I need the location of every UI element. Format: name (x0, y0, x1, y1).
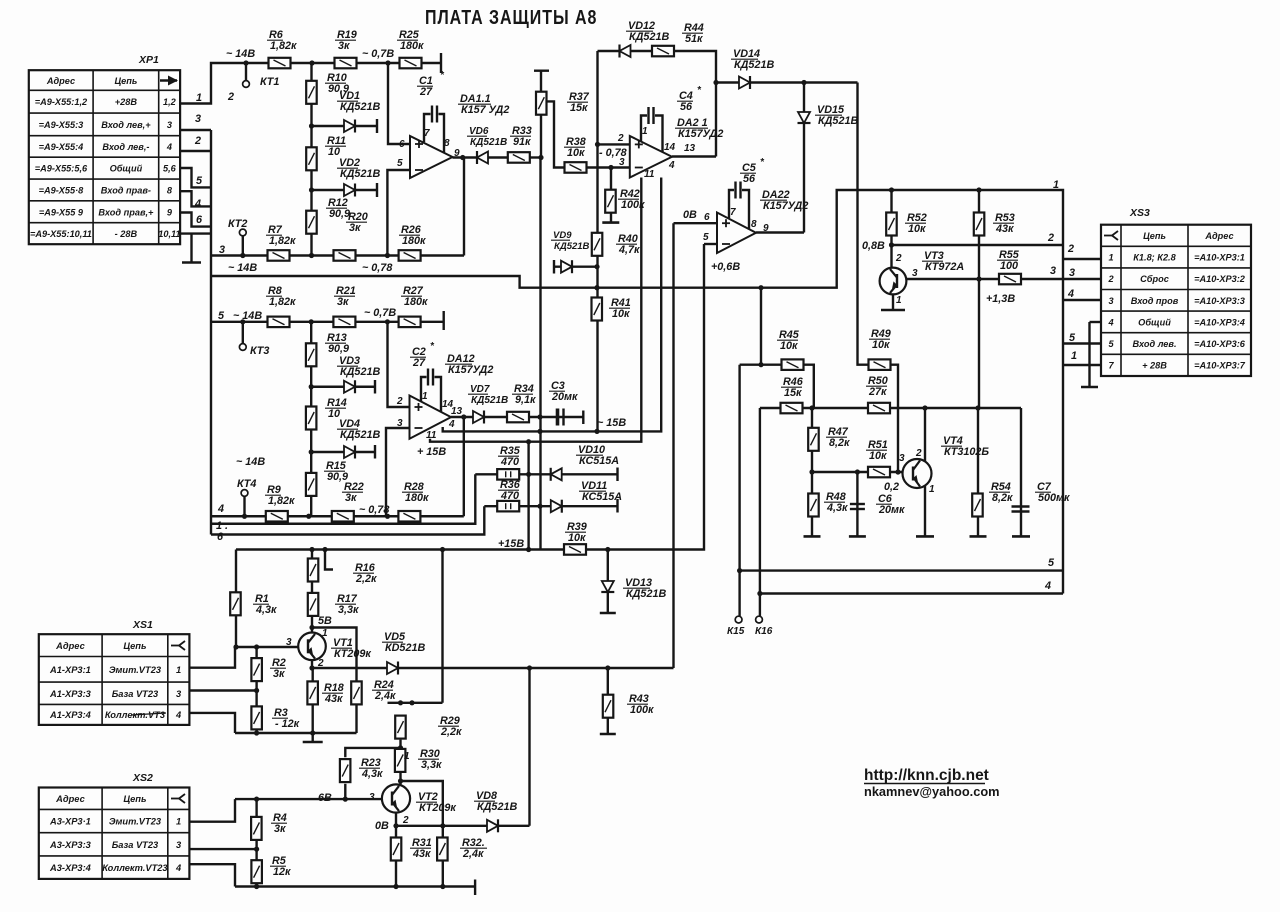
label R34 (512, 383, 536, 406)
wire VT2 emitter (395, 813, 397, 826)
label pin8 DA1.1 (444, 138, 450, 149)
junction node x594 pin4 (594, 429, 599, 434)
label R33 (510, 125, 532, 148)
wire C4 frame (641, 116, 647, 142)
wire C1 frame b (439, 114, 445, 153)
wire VD11 row (484, 505, 617, 507)
label 5 row (218, 310, 225, 322)
op-amp DA1.1 (410, 136, 453, 178)
ground XS3 (1081, 386, 1098, 389)
label R50 (866, 375, 888, 398)
resistor R1 (230, 592, 241, 615)
label R25 (397, 29, 424, 52)
svg-text:1: 1 (1071, 350, 1077, 362)
wire R43 chain (607, 668, 609, 734)
svg-text:3: 3 (369, 792, 375, 803)
label R8 (266, 285, 296, 308)
svg-text:3: 3 (1108, 296, 1113, 306)
wire R23 bot (344, 784, 346, 799)
svg-text:8: 8 (167, 185, 173, 195)
svg-text:2: 2 (402, 815, 409, 826)
wire row 1 bus (211, 474, 475, 523)
svg-text:КД521В: КД521В (340, 429, 380, 441)
junction node 0,7V row1 (385, 60, 390, 65)
svg-text:15к: 15к (570, 102, 588, 114)
svg-text:2: 2 (617, 133, 624, 144)
wire VD7 row (451, 416, 583, 418)
svg-text:10к: 10к (908, 223, 926, 235)
svg-text:4,3к: 4,3к (255, 604, 277, 616)
label pin13 DA2.1 (684, 143, 696, 154)
junction node R22-R28 (385, 514, 390, 519)
terminator R37 top (534, 69, 549, 71)
junction node R9-R22 (306, 514, 311, 519)
junction node R23-R30 (398, 745, 403, 750)
wire VT1 coll to R24 (312, 628, 357, 682)
svg-text:5: 5 (1069, 332, 1076, 344)
label VD7 (468, 384, 508, 406)
svg-text:КТ972А: КТ972А (925, 261, 964, 273)
wire XS2 row2 wire (189, 848, 256, 850)
label 3 xs3l (1050, 265, 1056, 277)
wire rail 2 (892, 244, 1064, 246)
junction node base VT4 (895, 469, 900, 474)
svg-text:КД521В: КД521В (340, 366, 380, 378)
svg-text:3,3к: 3,3к (338, 604, 359, 616)
junction node VT1 coll (309, 625, 314, 630)
svg-text:=А10-ХР3:6: =А10-ХР3:6 (1194, 339, 1246, 349)
svg-text:100: 100 (1000, 260, 1018, 272)
svg-text:470: 470 (500, 490, 519, 502)
label R44 (682, 22, 704, 45)
wire XS1 row3 wire (189, 713, 235, 733)
wire DA1.1 -in riser (387, 170, 410, 256)
junction node x540 pin4 (537, 429, 542, 434)
title (425, 6, 597, 28)
wire +15V rail (236, 244, 704, 550)
wire XS3 stub r7 (1063, 364, 1101, 366)
label C2 (410, 341, 435, 369)
capacitor C5 (736, 182, 741, 199)
svg-text:КТ209к: КТ209к (419, 802, 456, 814)
label VD9 (551, 230, 590, 252)
wire VD8 row (396, 825, 530, 827)
svg-text:Общий: Общий (110, 164, 143, 174)
junction rail dot R29 (440, 547, 445, 552)
wire DA1.2 -in riser (386, 428, 410, 516)
junction node VD14 in (713, 80, 718, 85)
junction DA1.1 out (460, 155, 465, 160)
wire link row1-rail (211, 190, 1063, 288)
wire R33 out (530, 156, 542, 158)
ground R48 (804, 535, 821, 538)
label pin7 DA2.2 (730, 207, 736, 218)
svg-text:5,6: 5,6 (163, 164, 177, 174)
svg-text:4,3к: 4,3к (361, 768, 383, 780)
diode VD13 (601, 581, 614, 592)
junction node R47-R51 (809, 469, 814, 474)
label R52 (905, 212, 927, 235)
resistor R33 (508, 152, 530, 163)
svg-text:2: 2 (915, 448, 922, 459)
wire XS3 stub r5 (1063, 342, 1101, 344)
label pin2 DA1.2 (396, 396, 403, 407)
svg-text:3к: 3к (338, 40, 350, 52)
svg-text:180к: 180к (402, 235, 426, 247)
resistor R8 (268, 317, 290, 328)
resistor R48 (808, 494, 819, 517)
label pin13 DA1.2 (451, 406, 463, 417)
ground VT3 (881, 309, 905, 312)
label pin3 DA1.2 (397, 418, 403, 429)
svg-text:3к: 3к (337, 296, 349, 308)
resistor R51 (868, 467, 890, 478)
junction node x597 rail (594, 285, 599, 290)
label 0V DA2.2 (683, 209, 697, 221)
svg-text:КТ1: КТ1 (260, 76, 279, 88)
label 2 xs3l (1047, 232, 1054, 244)
label R55 (997, 249, 1020, 272)
wire XS3 gnd leg (1088, 322, 1090, 387)
label VT2 (416, 791, 456, 814)
junction node R2-R3 (254, 688, 259, 693)
svg-text:А3-ХР3:4: А3-ХР3:4 (49, 863, 92, 873)
junction node R6-R19 (309, 60, 314, 65)
junction DA1.2 out (461, 414, 466, 419)
junction node x528 pin11 (526, 439, 531, 444)
junction rail dot tick (322, 547, 327, 552)
wire R48 chain (811, 472, 813, 536)
svg-text:VD9: VD9 (553, 230, 572, 241)
svg-text:КТ2: КТ2 (228, 218, 247, 230)
label 4 xs3r (1067, 288, 1074, 300)
resistor R49 (869, 359, 891, 370)
label R54 (989, 481, 1013, 504)
svg-text:100к: 100к (630, 704, 654, 716)
label KT4 (237, 478, 256, 490)
label +15V (498, 538, 524, 550)
wire x761 drop (760, 288, 762, 365)
label pin1 VT4 (929, 484, 935, 495)
svg-text:10к: 10к (780, 340, 798, 352)
svg-text:База VТ23: База VТ23 (112, 689, 159, 699)
label 1 xs3r (1071, 350, 1077, 362)
diode VD4 (344, 446, 355, 459)
wire VD4 wire (311, 451, 375, 453)
svg-text:3,3к: 3,3к (421, 759, 442, 771)
label VD5 (382, 631, 425, 654)
resistor R3 (251, 706, 262, 729)
junction node R4 top (254, 797, 259, 802)
svg-text:1: 1 (176, 665, 181, 675)
junction node gnd VT1 (310, 730, 315, 735)
op-amp DA2.1 (630, 136, 672, 178)
svg-text:4: 4 (668, 160, 675, 171)
label pin9 DA2.2 (763, 223, 769, 234)
wire XP1 pin 4 (180, 150, 211, 152)
transistor VT2 (382, 784, 410, 812)
svg-text:8,2к: 8,2к (992, 492, 1013, 504)
label pin3 VT1 (286, 637, 292, 648)
junction KT3 stem (240, 319, 245, 324)
label ~14V row1 (226, 48, 255, 60)
wire R16R17 chain (311, 550, 313, 633)
wire VT1 base row (236, 646, 298, 648)
svg-text:КД521В: КД521В (471, 395, 508, 406)
svg-text:К1.8; К2.8: К1.8; К2.8 (1133, 253, 1176, 263)
resistor R28 (398, 511, 420, 522)
XS3 header pin symbol (1104, 231, 1118, 240)
wire R29-R30 link (399, 740, 401, 748)
junction node R7-R20 (309, 253, 314, 258)
capacitor C4 (649, 107, 654, 124)
junction node R53 top (976, 187, 981, 192)
junction node R38-R42 (608, 165, 613, 170)
wire XS1 row2 wire (189, 689, 256, 691)
zener VD10 (551, 468, 562, 481)
svg-text:11: 11 (426, 430, 437, 441)
ground VT1 stem (312, 733, 314, 742)
svg-text:4,3к: 4,3к (826, 502, 848, 514)
wire VT4 collector (924, 408, 926, 461)
label pin6 DA1.1 (399, 139, 405, 150)
svg-text:3: 3 (397, 418, 403, 429)
label C6 (876, 493, 905, 516)
label pin3 VT2 (369, 792, 375, 803)
label pin2 VT3 (895, 253, 902, 264)
wire VD5 row (312, 667, 674, 669)
wire R54 chain (977, 408, 979, 536)
svg-text:20мк: 20мк (878, 504, 905, 516)
label DA2.1 (675, 117, 723, 140)
junction node rail4 (757, 591, 762, 596)
terminator VD1 (376, 119, 378, 133)
label pin14 DA1.2 (442, 399, 454, 410)
wire R38 out (586, 166, 630, 168)
wire DA2.1 +in (598, 143, 630, 145)
svg-text:15к: 15к (784, 387, 802, 399)
junction node VD11 x540 (537, 504, 542, 509)
svg-text:Коллект.VТ23: Коллект.VТ23 (102, 863, 168, 873)
label R4 (271, 812, 287, 835)
label 5 rail (1048, 557, 1055, 569)
junction node R2 top (254, 644, 259, 649)
wire row R7 (211, 254, 464, 256)
label pin11 DA1.2 (426, 430, 437, 441)
label 5 (196, 175, 203, 187)
capacitor C7 (1012, 507, 1030, 512)
svg-text:10к: 10к (567, 147, 585, 159)
svg-text:КТ4: КТ4 (237, 478, 256, 490)
label 4 (194, 198, 201, 210)
label R36 (498, 479, 521, 502)
svg-text:3к: 3к (349, 222, 361, 234)
svg-text:~ 0,78: ~ 0,78 (359, 504, 389, 516)
diode VD14 (739, 76, 750, 89)
wire R23 top wire (345, 748, 400, 757)
svg-text:~ 14В: ~ 14В (226, 48, 255, 60)
svg-text:К157 УД2: К157 УД2 (461, 104, 509, 116)
label 1 row (216, 520, 228, 532)
svg-text:5: 5 (218, 310, 225, 322)
junction node VD8 drop (527, 665, 532, 670)
label VD4 (337, 418, 380, 441)
label pin11 DA2.1 (644, 169, 655, 180)
svg-text:4: 4 (217, 503, 224, 515)
resistor R2 (251, 658, 262, 681)
svg-text:56: 56 (680, 101, 693, 113)
diode VD3 (344, 380, 355, 393)
svg-text:3: 3 (195, 113, 201, 125)
label pin1 DA2.1 (642, 126, 648, 137)
wire DA2.2 -in (704, 243, 717, 245)
terminator VD9 left (553, 260, 555, 274)
resistor R9 (266, 511, 288, 522)
svg-text:Адрес: Адрес (46, 76, 75, 86)
junction node R32 bot (440, 884, 445, 889)
svg-text:180к: 180к (400, 40, 424, 52)
XS1 strike (131, 713, 166, 715)
junction node VD2 (309, 187, 314, 192)
XS2 header pin symbol (171, 794, 185, 803)
label ~0,78 row2 (362, 262, 392, 274)
terminal KT2 (239, 229, 246, 255)
label pin2 VT4 (915, 448, 922, 459)
svg-text:10к: 10к (869, 450, 887, 462)
wire VT4 emitter (924, 486, 926, 536)
svg-text:=А9-Х55·8: =А9-Х55·8 (39, 185, 85, 195)
diode VD9 (561, 260, 572, 273)
svg-text:1,2: 1,2 (163, 97, 177, 107)
ground C6 (849, 535, 866, 538)
label R10 (325, 72, 349, 95)
svg-text:http://knn.cjb.net: http://knn.cjb.net (864, 767, 989, 784)
wire R26 feedback up (463, 158, 465, 256)
svg-text:1: 1 (642, 126, 648, 137)
label R48 (824, 491, 848, 514)
wire pin11 rail (430, 178, 641, 442)
wire VD14 to R49 drop (858, 83, 870, 365)
svg-text:2: 2 (895, 253, 902, 264)
svg-text:~ 0,78: ~ 0,78 (362, 262, 392, 274)
svg-text:КС515А: КС515А (579, 455, 619, 467)
terminator R27 (443, 311, 445, 330)
svg-text:КС515А: КС515А (582, 491, 622, 503)
resistor R31 (391, 838, 402, 861)
svg-text:VD7: VD7 (470, 384, 490, 395)
svg-text:14: 14 (664, 142, 676, 153)
resistor R45 (782, 359, 804, 370)
svg-text:500мк: 500мк (1038, 492, 1070, 504)
label VD10 (576, 444, 619, 467)
label 6 (196, 214, 203, 226)
junction node R4-R5 (254, 847, 259, 852)
svg-text:Цепь: Цепь (1143, 231, 1166, 241)
junction node VD9 (594, 264, 599, 269)
wire R42 lead (610, 168, 612, 223)
resistor R30 (395, 749, 406, 772)
ground R43 (600, 733, 616, 736)
junction node VT4 coll (922, 405, 927, 410)
svg-text:Вход прав,+: Вход прав,+ (98, 207, 154, 217)
svg-text:6: 6 (704, 212, 710, 223)
connector table XS1 (39, 619, 190, 725)
wire left bus (210, 130, 212, 535)
label VD12 (626, 20, 669, 43)
connector table XS3 (1101, 207, 1251, 376)
svg-text:90,9: 90,9 (328, 343, 349, 355)
wire rail 4 (760, 592, 1063, 594)
label pin3 VT3 (912, 268, 918, 279)
label DA2.2 (760, 189, 808, 212)
diode VD6 (477, 151, 488, 164)
wire XP1 pin 10,11 (180, 232, 211, 234)
resistor R43 (603, 695, 614, 718)
label R45 (777, 329, 800, 352)
diode VD2 (344, 184, 355, 197)
label R51 (866, 439, 888, 462)
svg-text:10к: 10к (612, 308, 630, 320)
resistor R53 (974, 213, 985, 236)
label 2b (194, 135, 201, 147)
svg-text:+28В: +28В (115, 97, 138, 107)
label VD6 (467, 126, 507, 148)
connector table XS2 (39, 772, 190, 879)
diode VD1 (344, 120, 355, 133)
label R3 (272, 707, 300, 730)
svg-text:Цепь: Цепь (123, 794, 146, 804)
wire ground stem XP1 (190, 234, 192, 263)
label R6 (267, 29, 297, 52)
svg-text:3: 3 (1069, 267, 1075, 279)
svg-text:ПЛАТА ЗАЩИТЫ А8: ПЛАТА ЗАЩИТЫ А8 (425, 6, 597, 28)
svg-text:=А10-ХР3:4: =А10-ХР3:4 (1194, 317, 1245, 327)
svg-text:4,7к: 4,7к (618, 244, 640, 256)
svg-text:КД521В: КД521В (734, 59, 774, 71)
svg-text:=А9-Х55:10,11: =А9-Х55:10,11 (30, 229, 92, 239)
svg-text:КТ3: КТ3 (250, 345, 269, 357)
svg-text:3к: 3к (274, 823, 286, 835)
resistor R55 (999, 274, 1021, 285)
junction KT2 stem (240, 253, 245, 258)
svg-text:27: 27 (412, 357, 426, 369)
ground R54 (970, 535, 987, 538)
junction node R31 bot (393, 884, 398, 889)
label R42 (618, 188, 645, 211)
wire VD8 riser (528, 668, 530, 826)
label R38 (564, 136, 586, 159)
resistor R50 (868, 403, 890, 414)
svg-text:1,82к: 1,82к (269, 235, 296, 247)
wire DA1.1 +in riser (388, 63, 410, 144)
resistor R37 (536, 92, 547, 115)
svg-text:2: 2 (1067, 243, 1074, 255)
label 5V (318, 615, 332, 627)
label 2 xs3r (1067, 243, 1074, 255)
label R16 (353, 562, 377, 585)
svg-text:1: 1 (929, 484, 935, 495)
svg-text:0В: 0В (375, 820, 389, 832)
svg-text:КТ209к: КТ209к (334, 648, 371, 660)
svg-text:5В: 5В (318, 615, 332, 627)
wire K16 drop (759, 408, 761, 616)
svg-text:- 28В: - 28В (115, 229, 138, 239)
resistor R15 (306, 473, 317, 496)
svg-text:База VТ23: База VТ23 (112, 840, 159, 850)
junction node x761 r45 (758, 362, 763, 367)
wire DA2.2 out (756, 231, 804, 233)
svg-text:Адрес: Адрес (55, 794, 85, 804)
